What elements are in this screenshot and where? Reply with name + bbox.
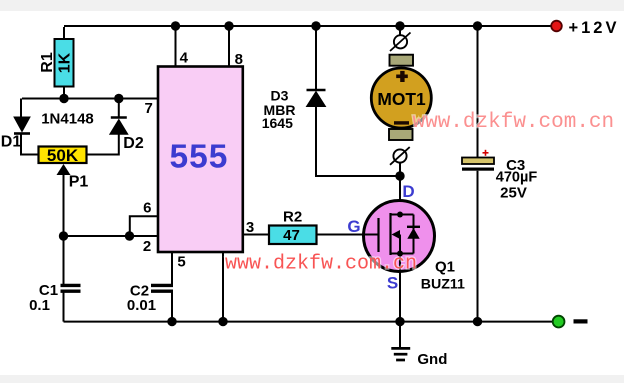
svg-text:+12V: +12V <box>569 19 620 37</box>
ground stub <box>399 322 401 348</box>
diode D2 <box>110 118 128 135</box>
terminal +12V <box>551 21 562 32</box>
wire R1 bottom stub <box>63 87 65 99</box>
svg-text:1N4148: 1N4148 <box>41 111 94 128</box>
wire D3 top <box>315 26 317 89</box>
svg-text:D: D <box>402 182 414 201</box>
wire motor bottom stub <box>399 163 401 176</box>
Q1 gate lead <box>363 234 379 236</box>
capacitor C1 <box>61 285 81 291</box>
wire D2 to pot <box>87 134 119 154</box>
junction pin1-ground rail <box>218 317 227 326</box>
terminal screw bottom <box>390 147 410 165</box>
junction pin6-pin2 <box>125 231 134 240</box>
motor terminal block top <box>390 55 414 66</box>
svg-text:P1: P1 <box>69 173 89 190</box>
wire R1 top stub <box>63 27 65 39</box>
svg-text:5: 5 <box>177 254 185 271</box>
capacitor C3 polarity plus <box>483 150 489 156</box>
wire pin1 <box>222 252 224 322</box>
Q1 body diode <box>407 215 420 254</box>
wire D1 top <box>20 99 22 118</box>
svg-text:1K: 1K <box>57 52 74 73</box>
svg-text:470µF: 470µF <box>496 170 538 186</box>
svg-text:www.dzkfw.com.cn: www.dzkfw.com.cn <box>413 111 615 134</box>
junction pin4 rail <box>171 21 180 30</box>
Q1 gate bar <box>377 218 379 252</box>
terminal minus <box>553 316 565 328</box>
wire pin6 branch <box>130 216 159 236</box>
svg-text:Q1: Q1 <box>435 258 455 275</box>
Q1 body arrow <box>392 230 401 254</box>
wire pin2 rail <box>64 235 158 237</box>
ground <box>391 348 410 360</box>
junction pin8 rail <box>224 21 233 30</box>
svg-text:47: 47 <box>283 227 300 244</box>
svg-text:Gnd: Gnd <box>417 351 447 368</box>
svg-text:www.dzkfw.com.cn: www.dzkfw.com.cn <box>225 253 417 276</box>
junction D3 rail <box>311 21 320 30</box>
svg-text:D2: D2 <box>123 135 144 152</box>
wire D1 to pot <box>21 135 39 155</box>
junction motor rail <box>395 21 404 30</box>
junction D2-pin7 <box>114 94 123 103</box>
junction R1-pin7 <box>59 94 68 103</box>
svg-text:2: 2 <box>143 238 151 255</box>
potentiometer P1 body <box>39 147 87 164</box>
wire pin4 <box>175 26 177 67</box>
wire drain <box>399 176 401 215</box>
junction drain node <box>395 171 404 180</box>
motor minus mark <box>394 121 409 124</box>
junction source-ground rail <box>395 317 404 326</box>
svg-text:6: 6 <box>143 199 151 216</box>
motor MOT1 <box>371 68 431 128</box>
svg-text:0.1: 0.1 <box>29 297 50 314</box>
wire motor top stub <box>399 26 401 36</box>
wire C2 bottom <box>171 293 173 322</box>
resistor R1 <box>55 39 74 87</box>
transistor Q1 body <box>364 201 435 272</box>
svg-text:BUZ11: BUZ11 <box>421 277 465 293</box>
wire R2 to gate <box>317 234 366 236</box>
potentiometer P1 wiper arrow <box>57 164 71 236</box>
IC U1 555 timer body <box>158 67 243 253</box>
Q1 channel bar <box>389 213 391 255</box>
svg-text:MOT1: MOT1 <box>377 89 426 109</box>
wire pin5 <box>171 252 173 285</box>
junction Q1 source tap <box>397 251 403 257</box>
wire pin7 rail <box>22 98 158 100</box>
junction wiper-C1 <box>59 231 68 240</box>
wire pin3 <box>243 234 269 236</box>
wire C3 top <box>477 26 479 158</box>
junction C2-ground rail <box>167 317 176 326</box>
svg-text:8: 8 <box>235 51 243 68</box>
wire C3 bottom <box>477 171 479 322</box>
wire D2 top <box>118 99 120 117</box>
svg-text:555: 555 <box>170 138 229 175</box>
diode D1 <box>14 117 30 134</box>
svg-text:0.01: 0.01 <box>127 297 156 314</box>
svg-text:G: G <box>347 217 360 236</box>
svg-text:4: 4 <box>180 49 189 66</box>
svg-text:3: 3 <box>246 219 254 236</box>
svg-text:R1: R1 <box>39 52 56 73</box>
svg-text:D1: D1 <box>1 134 22 151</box>
wire C1 top <box>63 236 65 285</box>
label minus <box>574 319 588 323</box>
svg-text:R2: R2 <box>283 209 302 226</box>
svg-text:1645: 1645 <box>262 115 293 131</box>
svg-text:25V: 25V <box>500 185 527 202</box>
junction C3 rail <box>473 21 482 30</box>
junction C3-ground rail <box>473 317 482 326</box>
capacitor C3 <box>462 158 494 171</box>
motor terminal block bottom <box>389 129 413 140</box>
svg-text:7: 7 <box>145 100 153 117</box>
resistor R2 <box>269 226 317 245</box>
wire pin8 <box>228 26 230 67</box>
terminal screw top <box>390 33 411 52</box>
wire C1 bottom to ground rail <box>63 293 65 322</box>
Q1 drain tap <box>391 214 414 216</box>
Q1 source tap <box>391 253 414 255</box>
wire top +12V rail <box>64 25 552 27</box>
wire D3 bottom <box>316 107 400 177</box>
svg-text:S: S <box>387 274 398 293</box>
wire source <box>399 254 401 322</box>
diode D3 <box>307 90 326 107</box>
capacitor C2 <box>151 285 173 291</box>
svg-text:50K: 50K <box>47 146 79 165</box>
wire bottom ground rail <box>64 321 554 323</box>
junction Q1 drain tap <box>397 212 403 218</box>
motor plus mark <box>396 71 408 82</box>
